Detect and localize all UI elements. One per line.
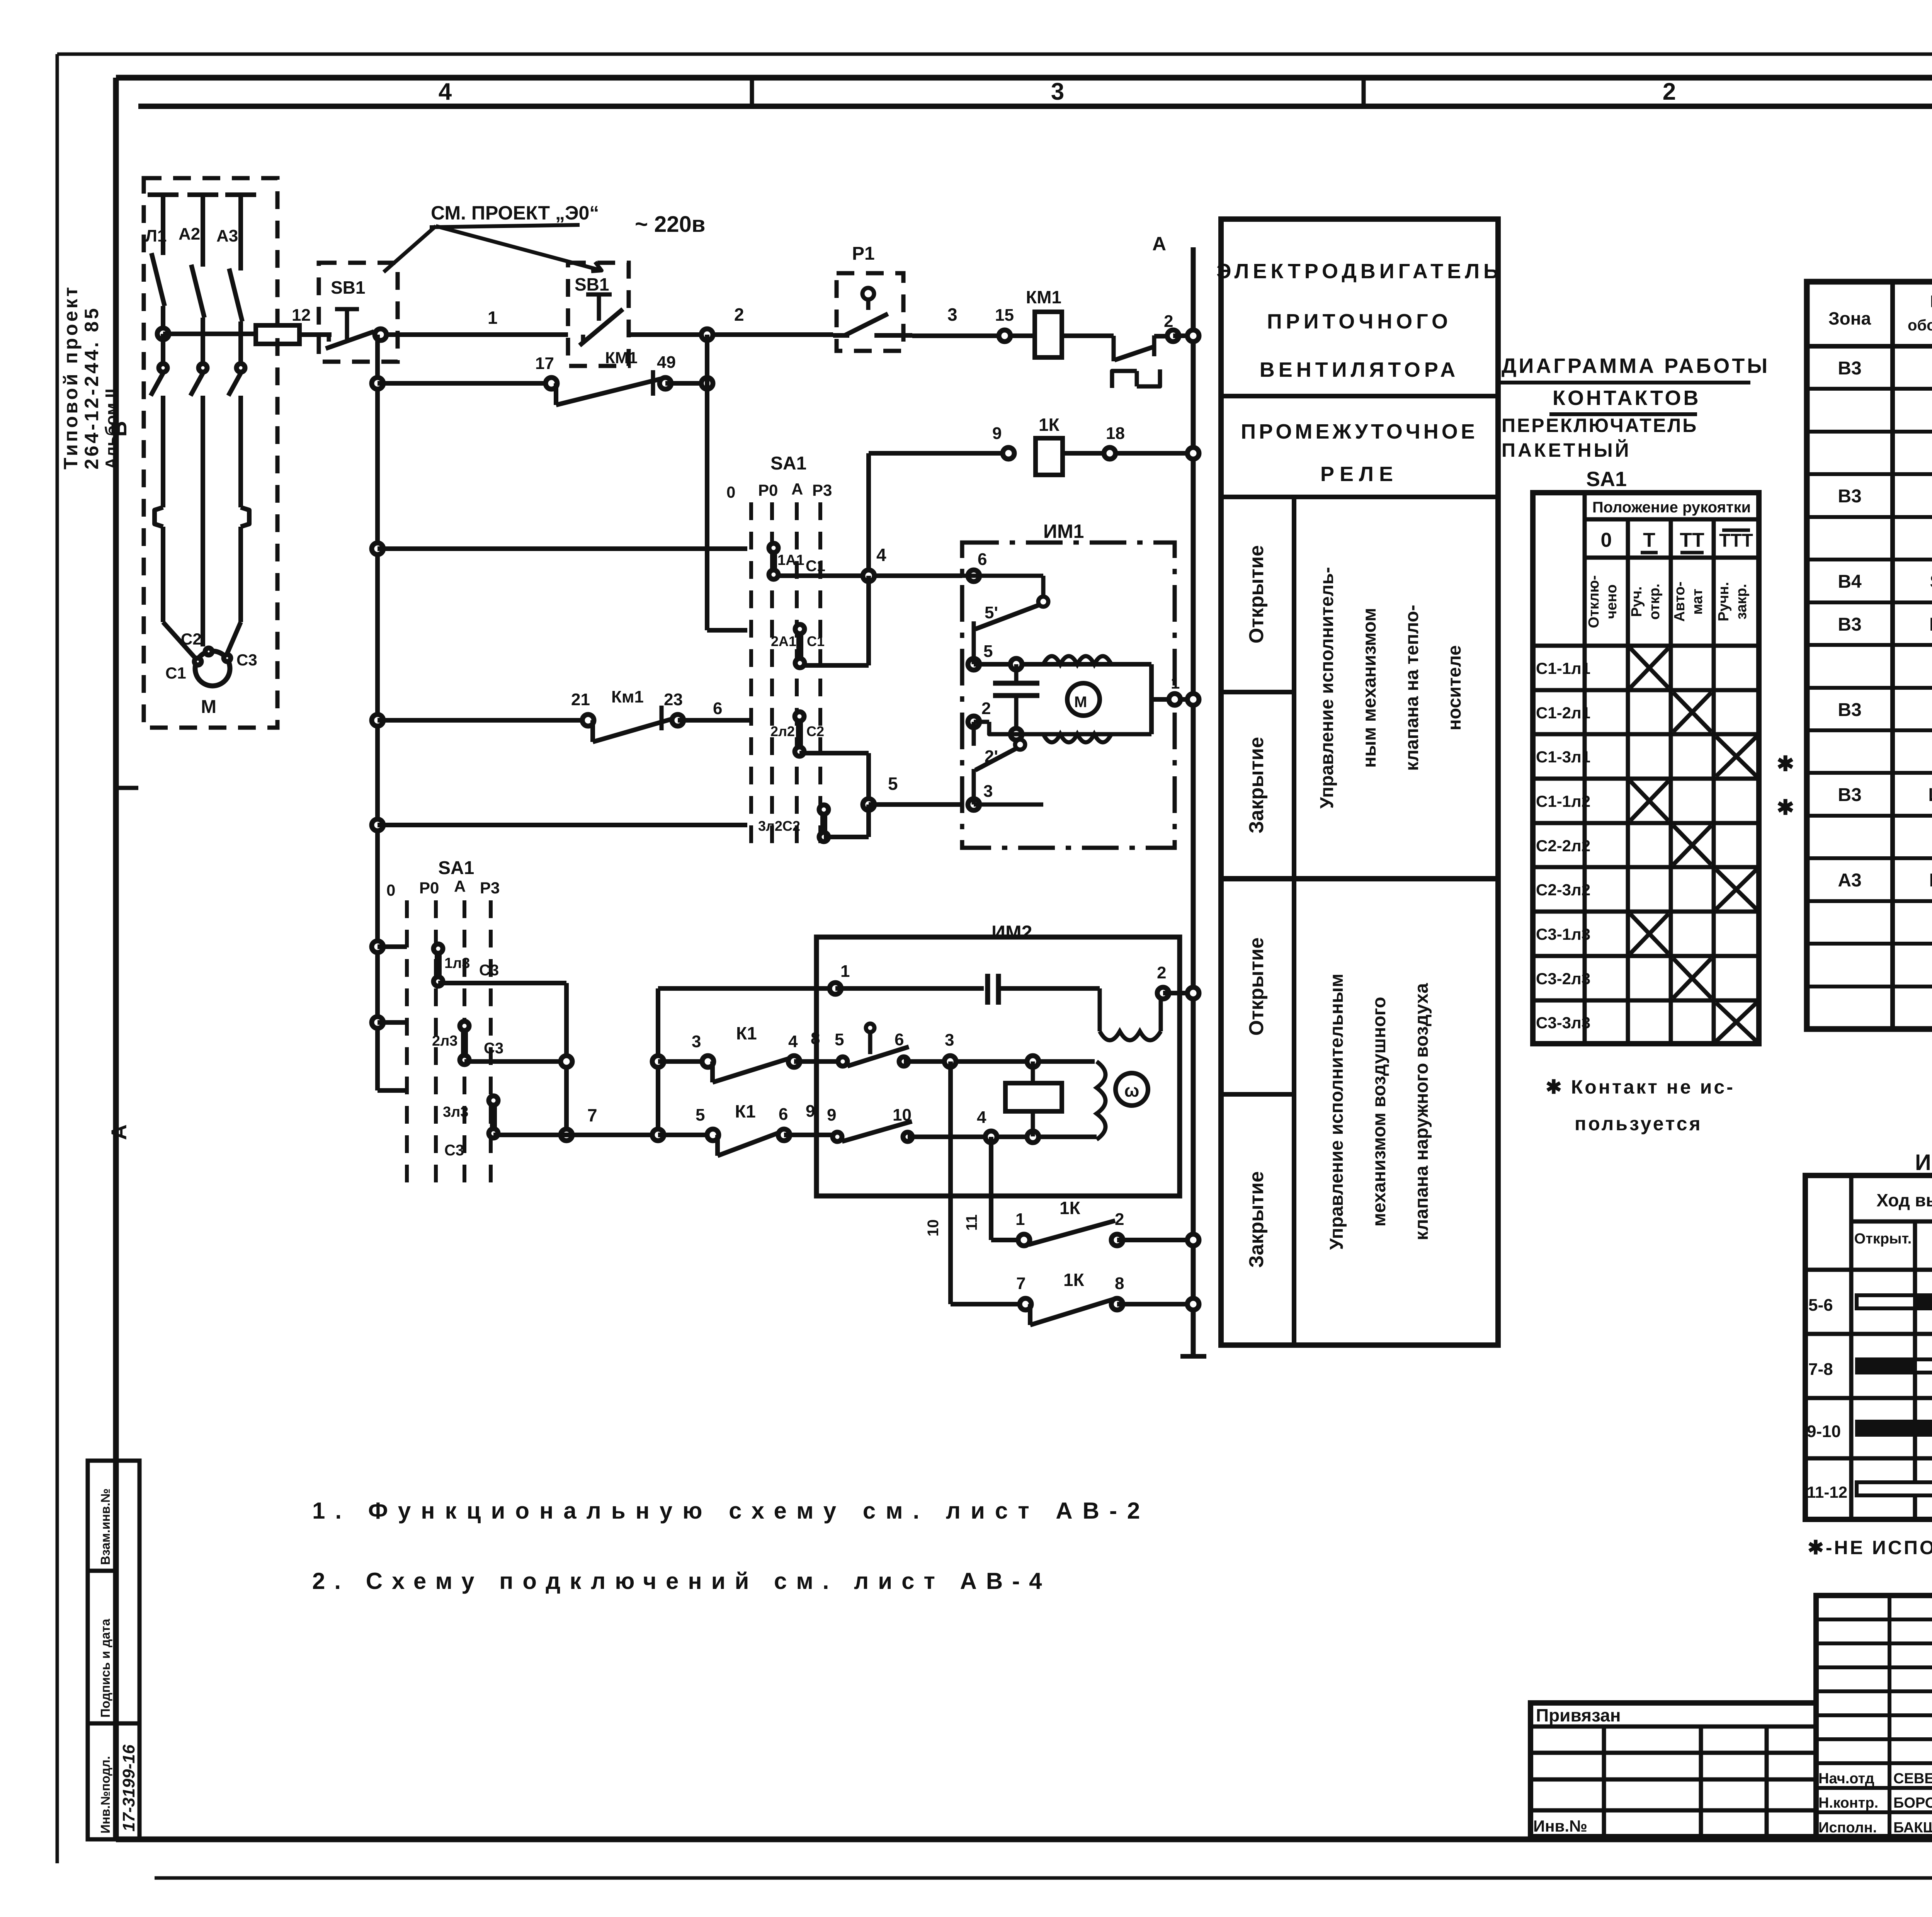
svg-text:СЕВЕРИНОВ: СЕВЕРИНОВ: [1893, 1771, 1932, 1787]
svg-text:5-6: 5-6: [1808, 1296, 1833, 1315]
node bus r1: [1187, 330, 1199, 342]
svg-text:ВЕНТИЛЯТОРА: ВЕНТИЛЯТОРА: [1260, 358, 1459, 381]
svg-text:SА1: SА1: [438, 858, 474, 878]
svg-text:9-10: 9-10: [1807, 1422, 1841, 1441]
svg-text:0: 0: [1601, 529, 1612, 551]
wire K1 34 to IM2: [794, 1059, 843, 1064]
svg-text:2: 2: [1157, 963, 1166, 982]
svg-text:Типовой проект: Типовой проект: [60, 285, 82, 469]
title privyazan: [1536, 1705, 1621, 1725]
SA1 group1 label: [770, 453, 806, 474]
node wire2 junction: [701, 329, 713, 340]
svg-text:11: 11: [963, 1214, 980, 1231]
svg-text:С2-2л2: С2-2л2: [1536, 837, 1590, 855]
svg-text:SА1: SА1: [1586, 468, 1627, 491]
riser K1 rows: [656, 988, 660, 1135]
svg-text:1: 1: [1015, 1210, 1025, 1229]
svg-text:носителе: носителе: [1444, 645, 1465, 731]
svg-text:Л1: Л1: [145, 226, 167, 245]
parts row P1a: [1838, 358, 1932, 379]
function table cell motor: [1216, 260, 1502, 381]
thermal relay KK contact: [1114, 312, 1173, 361]
ruler zone number 2: [1663, 78, 1676, 105]
svg-text:Открытие: Открытие: [1245, 937, 1268, 1036]
node bus 1K78: [1187, 1298, 1199, 1310]
svg-text:Поз.: Поз.: [1930, 292, 1932, 311]
breaker pole 1: [151, 253, 165, 334]
node IM1 5: [1010, 658, 1022, 670]
svg-text:В3: В3: [1838, 700, 1861, 720]
wire 7: [493, 1105, 658, 1135]
svg-text:6: 6: [895, 1030, 904, 1049]
cell control air valve: [1327, 973, 1432, 1250]
svg-text:М: М: [201, 697, 216, 717]
svg-text:В3: В3: [1838, 785, 1861, 805]
node bus IM2: [1187, 987, 1199, 999]
svg-text:К1: К1: [736, 1023, 757, 1043]
svg-text:КМ1: КМ1: [1929, 614, 1932, 635]
IM1 label: [1043, 520, 1084, 542]
wire 1K12 to bus: [1117, 1238, 1193, 1242]
wire to IM2 1: [658, 986, 835, 991]
IM1 winding top: [1043, 656, 1111, 664]
IM2 relay element: [1005, 1061, 1062, 1136]
title small grid: [1816, 1596, 1932, 1837]
node 15: [999, 330, 1010, 342]
svg-text:✱: ✱: [1777, 796, 1794, 819]
strip label vzam: [98, 1488, 112, 1565]
breaker pole 3: [229, 269, 242, 351]
svg-text:1К: 1К: [1060, 1198, 1081, 1218]
svg-text:ДИАГРАММА РАБОТЫ: ДИАГРАММА РАБОТЫ: [1502, 354, 1770, 378]
SA1 star marks: [1777, 752, 1794, 819]
svg-text:264-12-244. 85: 264-12-244. 85: [81, 306, 102, 469]
IM1 terminal 2: [968, 699, 991, 728]
svg-text:1К: 1К: [1039, 415, 1060, 435]
svg-text:Т: Т: [1643, 529, 1655, 551]
SA1 contact 2A3: [432, 1021, 503, 1065]
left zone letter A: [107, 1124, 131, 1140]
svg-text:Р3: Р3: [812, 481, 832, 499]
svg-text:Закрытие: Закрытие: [1245, 737, 1268, 833]
svg-text:1: 1: [1171, 674, 1180, 692]
parts row IM1a: [1838, 785, 1932, 805]
svg-text:Привязан: Привязан: [1536, 1705, 1621, 1725]
svg-text:С3: С3: [444, 1142, 464, 1159]
parts row SAa: [1838, 486, 1932, 507]
wire row4: [378, 546, 747, 551]
cell control heat valve: [1317, 567, 1465, 809]
svg-text:4: 4: [876, 545, 886, 565]
svg-text:12: 12: [292, 306, 311, 325]
svg-text:Р3: Р3: [480, 879, 500, 897]
IM2 motor: [1116, 1073, 1148, 1106]
svg-text:С3: С3: [236, 651, 257, 669]
svg-text:Р0: Р0: [758, 481, 778, 499]
svg-text:Им2: Им2: [1929, 870, 1932, 891]
svg-text:Открыт.: Открыт.: [1854, 1231, 1912, 1247]
svg-text:механизмом воздушного: механизмом воздушного: [1369, 997, 1389, 1227]
svg-text:21: 21: [571, 690, 590, 709]
svg-text:5: 5: [696, 1106, 705, 1124]
svg-text:БОРОДКИН: БОРОДКИН: [1893, 1795, 1932, 1811]
svg-text:6: 6: [978, 550, 987, 569]
wire fuse to SB1: [299, 332, 332, 337]
wire IM1 top: [974, 662, 1151, 667]
svg-text:7-8: 7-8: [1808, 1360, 1833, 1379]
svg-text:Положение рукоятки: Положение рукоятки: [1592, 499, 1751, 516]
svg-text:С1: С1: [165, 664, 186, 682]
svg-text:2. Схему подключений с: 2. Схему подключений см. лист АВ-4: [312, 1568, 1051, 1594]
SA1 header 0: [1601, 529, 1612, 551]
wire K1 56 to IM2: [784, 1133, 837, 1137]
svg-text:С3-2л3: С3-2л3: [1536, 970, 1590, 988]
svg-text:ЭЛЕКТРОДВИГАТЕЛЬ: ЭЛЕКТРОДВИГАТЕЛЬ: [1216, 260, 1502, 283]
svg-text:5: 5: [835, 1030, 844, 1049]
svg-text:4: 4: [788, 1032, 798, 1051]
IM1 motor: [1067, 683, 1100, 716]
IM2 terminal 3: [835, 1030, 1095, 1067]
node 9: [992, 424, 1014, 459]
phase input A2: [179, 195, 218, 267]
SA1 row labels: [1536, 659, 1590, 1032]
svg-text:0: 0: [386, 881, 395, 899]
svg-text:2': 2': [985, 747, 998, 766]
svg-text:С3: С3: [479, 962, 499, 979]
IM2 diagram grid: [1805, 1175, 1932, 1519]
svg-text:РЕЛЕ: РЕЛЕ: [1320, 463, 1398, 486]
node SB1 junction: [375, 329, 386, 340]
svg-text:2л3: 2л3: [432, 1033, 457, 1049]
contactor coil KM1: [1026, 287, 1062, 357]
svg-text:3л2С2: 3л2С2: [758, 818, 800, 834]
IM2 header otkryt: [1854, 1231, 1912, 1247]
parts row SB1: [1838, 572, 1932, 592]
button SB1 start box: [319, 263, 398, 362]
IM2 row 11-12: [1807, 1478, 1932, 1501]
svg-text:ТТТ: ТТТ: [1719, 531, 1753, 551]
function table cell relay: [1241, 420, 1478, 486]
IM2 limit switch close: [833, 1121, 912, 1141]
svg-text:С1-2л1: С1-2л1: [1536, 704, 1590, 722]
node wire4: [863, 570, 874, 582]
svg-text:2л2: 2л2: [770, 723, 795, 739]
wire 3A2 to wire5: [824, 805, 869, 837]
svg-text:Управление исполнитель-: Управление исполнитель-: [1317, 567, 1337, 809]
cell closing 1: [1245, 737, 1268, 833]
IM1 dash-dot box: [962, 543, 1175, 848]
contact K1 5-6: [658, 1101, 815, 1156]
node wire5: [863, 799, 874, 810]
svg-text:Р0: Р0: [419, 879, 439, 897]
node phase1 main: [157, 328, 169, 340]
svg-text:Р1: Р1: [852, 243, 875, 264]
left strip boxes: [88, 1461, 139, 1839]
svg-text:С3-1л3: С3-1л3: [1536, 925, 1590, 943]
node IM1 1: [1169, 694, 1180, 705]
svg-text:А3: А3: [216, 226, 238, 245]
wire to motor C1: [163, 622, 200, 663]
svg-text:Управление исполнительным: Управление исполнительным: [1327, 973, 1347, 1250]
svg-text:чено: чено: [1604, 584, 1620, 619]
SA1 header polozhenie: [1592, 499, 1751, 516]
wire 5: [869, 774, 962, 805]
svg-text:Подпись и дата: Подпись и дата: [98, 1619, 112, 1718]
bus A label: [1152, 233, 1166, 255]
node bus 1K12: [1187, 1234, 1199, 1246]
svg-text:С2-3л2: С2-3л2: [1536, 881, 1590, 899]
svg-text:Ход выходного вала: Ход выходного вала: [1876, 1190, 1932, 1210]
KM1 main contact 2: [190, 318, 207, 646]
fuse FU: [256, 306, 311, 344]
svg-text:18: 18: [1106, 424, 1125, 443]
svg-text:Руч.: Руч.: [1629, 586, 1645, 617]
svg-text:2А1: 2А1: [771, 633, 796, 649]
left zone divider: [115, 786, 138, 790]
svg-text:А: А: [1152, 233, 1166, 255]
thermal relay KK heater: [1112, 369, 1160, 388]
svg-text:откр.: откр.: [1646, 583, 1663, 620]
IM1 terminal 6: [968, 550, 987, 582]
contact 1K 7-8: [1016, 1270, 1124, 1325]
KM1 main contact 1: [151, 334, 167, 622]
wire stub1: [378, 944, 407, 949]
svg-text:3: 3: [692, 1032, 701, 1051]
node riser b: [652, 1129, 664, 1141]
SA1 contact 2A1: [771, 624, 825, 668]
cell opening 2: [1245, 937, 1268, 1036]
button SB1 stop box: [568, 263, 629, 366]
IM2 header rab: [1931, 1225, 1932, 1263]
node stub1: [372, 941, 383, 953]
svg-text:Инв.№: Инв.№: [1533, 1817, 1587, 1835]
svg-text:9: 9: [827, 1106, 836, 1124]
IM2 terminal 2: [1157, 963, 1169, 999]
wire stub2: [378, 1020, 407, 1025]
svg-text:В3: В3: [1838, 614, 1861, 635]
parts header poz: [1908, 292, 1932, 334]
contact K1 3-4: [658, 1023, 820, 1082]
note 2: [312, 1568, 1051, 1594]
phase input A3: [216, 195, 256, 270]
note sm proekt: [430, 202, 599, 227]
svg-text:С1: С1: [806, 558, 825, 575]
vertical link SA1 IM2: [564, 983, 569, 1135]
svg-text:обозначен: обозначен: [1908, 317, 1932, 334]
wire KM1 to KK: [1062, 333, 1114, 338]
svg-text:Взам.инв.№: Взам.инв.№: [98, 1488, 112, 1565]
IM1 terminal 3: [968, 769, 993, 810]
IM2 label: [992, 922, 1032, 943]
motor terminal C1: [165, 658, 201, 682]
wire row3b: [1063, 424, 1193, 453]
IM1 right side: [1151, 664, 1193, 734]
svg-text:КОНТАКТОВ: КОНТАКТОВ: [1553, 386, 1701, 410]
cell opening 1: [1245, 545, 1268, 643]
bus A: [1180, 247, 1206, 1356]
svg-text:10: 10: [925, 1220, 942, 1237]
contact KM1 aux 17-49: [535, 349, 676, 405]
left zone letter B: [107, 421, 131, 437]
SA1 contact 1A3: [434, 944, 499, 986]
svg-text:2: 2: [1115, 1210, 1124, 1229]
note 1: [312, 1498, 1150, 1524]
wire to motor C3: [226, 622, 241, 657]
svg-text:ИМ2: ИМ2: [992, 922, 1032, 943]
svg-text:4: 4: [439, 78, 452, 105]
svg-text:С2: С2: [181, 630, 202, 648]
svg-text:Инв.№подл.: Инв.№подл.: [98, 1756, 112, 1834]
relay coil 1K: [1036, 415, 1063, 475]
project caption: [60, 285, 121, 469]
svg-text:ПЕРЕКЛЮЧАТЕЛЬ: ПЕРЕКЛЮЧАТЕЛЬ: [1502, 415, 1698, 436]
wire 2A3: [464, 1059, 566, 1064]
svg-text:пользуется: пользуется: [1575, 1113, 1702, 1135]
motor terminal C3: [224, 651, 257, 669]
svg-text:закр.: закр.: [1733, 584, 1750, 619]
top ruler ticks: [752, 79, 1932, 106]
svg-text:8: 8: [1115, 1274, 1124, 1293]
node row4 start: [372, 543, 383, 555]
wire row5: [378, 718, 588, 723]
ruler zone number 4: [439, 78, 452, 105]
contact KM1 aux 21-23: [571, 687, 684, 742]
IM2 header hod: [1876, 1190, 1932, 1210]
node riser a: [652, 1056, 664, 1067]
svg-text:23: 23: [664, 690, 683, 709]
IM1 capacitor: [993, 664, 1039, 740]
thermostat P1 contact: [833, 288, 912, 335]
parts row IM2a: [1838, 870, 1932, 891]
svg-text:А: А: [454, 877, 466, 895]
breaker pole 2: [191, 265, 204, 351]
IM1 winding bottom: [1043, 734, 1111, 742]
heading diagram of contacts: [1499, 354, 1770, 491]
parts row KM1a: [1838, 614, 1932, 635]
node 18: [1104, 447, 1116, 459]
wire IM2 to bus: [1163, 991, 1193, 995]
svg-text:СМ. ПРОЕКТ „Э0“: СМ. ПРОЕКТ „Э0“: [431, 202, 599, 224]
svg-text:1А1: 1А1: [777, 552, 804, 568]
parts header zona: [1828, 308, 1871, 328]
wire row5b: [678, 699, 750, 720]
svg-text:2: 2: [734, 304, 744, 325]
svg-text:Отклю-: Отклю-: [1586, 575, 1602, 628]
riser wire2-row2: [707, 335, 747, 630]
svg-text:SВ1: SВ1: [331, 277, 365, 298]
svg-text:КМ1: КМ1: [605, 349, 638, 367]
svg-text:1. Функциональную схему: 1. Функциональную схему см. лист АВ-2: [312, 1498, 1150, 1524]
svg-text:17: 17: [535, 354, 554, 373]
thermostat P1 box: [837, 243, 903, 351]
button SB1 start symbol: [326, 309, 374, 349]
IM2 inner winding: [1097, 1061, 1105, 1140]
svg-text:ПРОМЕЖУТОЧНОЕ: ПРОМЕЖУТОЧНОЕ: [1241, 420, 1478, 443]
SA1 group2 label: [438, 858, 474, 878]
svg-text:6: 6: [779, 1105, 788, 1124]
svg-text:✱: ✱: [1777, 752, 1794, 776]
wire 1: [374, 308, 568, 335]
SA1 contact 1A1: [769, 543, 825, 579]
wire 2: [629, 304, 833, 335]
branch wire4 down: [803, 576, 869, 665]
svg-text:SВ1: SВ1: [575, 274, 609, 294]
svg-text:49: 49: [657, 353, 676, 372]
svg-text:5: 5: [888, 774, 898, 794]
svg-text:Нач.отд: Нач.отд: [1818, 1771, 1874, 1787]
SA1 group2 positions: [386, 877, 500, 899]
svg-text:10: 10: [893, 1106, 912, 1124]
node stub2: [372, 1017, 383, 1028]
parts row K1a: [1838, 700, 1932, 720]
svg-text:ИМ2: ИМ2: [1915, 1150, 1932, 1175]
title inv no: [1533, 1817, 1587, 1835]
strip label podpis: [98, 1619, 112, 1718]
svg-text:Открытие: Открытие: [1245, 545, 1268, 643]
svg-text:К1: К1: [735, 1101, 756, 1121]
svg-text:9: 9: [992, 424, 1002, 443]
phase input L1: [145, 195, 179, 255]
SA1 group1 positions: [726, 480, 832, 501]
wire 1A3: [438, 981, 566, 985]
wire row3: [869, 453, 1009, 576]
svg-text:3: 3: [983, 782, 993, 801]
svg-text:Закрытие: Закрытие: [1245, 1171, 1268, 1268]
left bus: [378, 335, 407, 1090]
wire IM1 t3: [974, 803, 1043, 807]
IM2 winding: [1100, 988, 1161, 1040]
wire main to fuse: [163, 332, 256, 336]
svg-text:4: 4: [977, 1108, 986, 1127]
ruler zone number 3: [1051, 78, 1064, 105]
svg-text:3л3: 3л3: [443, 1104, 468, 1120]
branch 2A2 down: [799, 753, 869, 805]
svg-text:3: 3: [945, 1031, 954, 1050]
svg-text:С1: С1: [807, 633, 825, 649]
svg-text:1К: 1К: [1063, 1270, 1085, 1290]
svg-text:ИМ1: ИМ1: [1043, 520, 1084, 542]
KM1 main contact 3: [228, 321, 249, 622]
svg-text:Н.контр.: Н.контр.: [1818, 1795, 1878, 1811]
svg-text:✱ Контакт не ис-: ✱ Контакт не ис-: [1546, 1076, 1735, 1098]
svg-text:ТТ: ТТ: [1680, 529, 1704, 551]
node row2 start: [372, 378, 383, 389]
wire 4: [777, 545, 962, 576]
svg-text:3: 3: [1051, 78, 1064, 105]
svg-text:С1-1л2: С1-1л2: [1536, 792, 1590, 810]
svg-text:7: 7: [587, 1105, 597, 1125]
node bus r3: [1187, 447, 1199, 459]
label 220V: [635, 212, 705, 237]
svg-text:1л3: 1л3: [444, 955, 470, 971]
wire 3: [912, 304, 1035, 336]
IM2 box: [816, 937, 1180, 1196]
svg-text:11-12: 11-12: [1807, 1483, 1847, 1501]
svg-text:1: 1: [840, 962, 850, 981]
svg-text:А: А: [791, 480, 803, 498]
svg-text:А2: А2: [179, 225, 200, 243]
svg-text:В3: В3: [1838, 486, 1861, 507]
wire IM2 t4 down: [963, 1137, 1024, 1240]
contact 1K 1-2: [1015, 1198, 1124, 1246]
node wire2 bus: [1167, 330, 1193, 342]
svg-text:В4: В4: [1838, 572, 1862, 592]
IM2 terminal 4: [827, 1106, 1097, 1143]
svg-text:ПРИТОЧНОГО: ПРИТОЧНОГО: [1267, 310, 1452, 333]
IM2 terminal 1: [830, 962, 850, 994]
svg-text:6: 6: [713, 699, 722, 718]
svg-text:С1-3л1: С1-3л1: [1536, 748, 1590, 766]
